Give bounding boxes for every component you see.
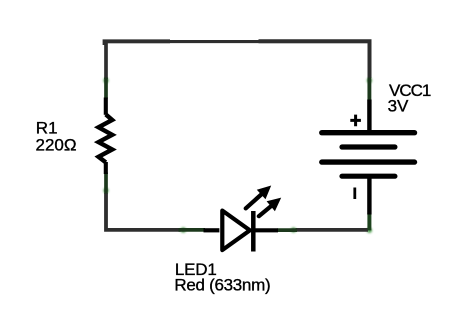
node dot: resistor top junction (green glow) bbox=[104, 78, 109, 83]
svg-text:Red (633nm): Red (633nm) bbox=[174, 276, 270, 295]
wire top thicker sub-segment bbox=[105, 41, 171, 45]
battery plus mark bbox=[350, 115, 361, 127]
LED light arrow 2 bbox=[259, 198, 281, 217]
battery VCC1 bbox=[322, 100, 415, 215]
svg-text:3V: 3V bbox=[388, 96, 409, 115]
pin: battery top (dark green) bbox=[367, 78, 371, 101]
pin: LED cathode (dark green) bbox=[278, 228, 298, 232]
resistor R1 bbox=[99, 98, 113, 175]
node dot: LED anode junction (green glow) bbox=[181, 227, 186, 232]
LED LED1 bbox=[204, 211, 279, 252]
wire top right thicker sub-segment bbox=[259, 41, 370, 78]
pin: LED anode (dark green) bbox=[179, 228, 206, 232]
battery minus mark bbox=[353, 188, 356, 200]
wire bottom-right: LED to bottom-right corner bbox=[296, 228, 369, 232]
wire top net: left vertical upper + top run + right vertical upper bbox=[106, 42, 369, 78]
node dot: resistor bottom junction (green glow) bbox=[104, 188, 109, 193]
pin: battery bottom to corner (dark green) bbox=[367, 214, 371, 231]
pin: resistor top (dark green) bbox=[104, 78, 108, 99]
node dot: battery top junction (green glow) bbox=[367, 78, 372, 83]
pin: resistor bottom (dark green) bbox=[104, 173, 108, 194]
LED light arrow 1 bbox=[246, 186, 272, 209]
wire left vertical upper bbox=[104, 40, 108, 79]
wire bottom-left: left vertical lower + bottom run to LED bbox=[106, 193, 181, 230]
node dot: bottom-right corner junction (green glow) bbox=[367, 228, 372, 233]
svg-text:220Ω: 220Ω bbox=[36, 136, 77, 155]
node dot: LED cathode junction (green glow) bbox=[291, 228, 296, 233]
